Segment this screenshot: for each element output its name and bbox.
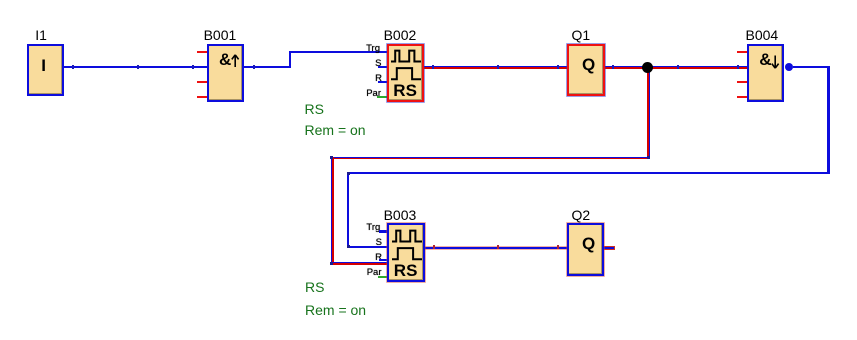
B003 pin stubs bbox=[379, 230, 388, 232]
B003 pin labels Trg S R Par bbox=[366, 223, 380, 233]
wire vertical down at x=332 (active) bbox=[331, 157, 332, 265]
node comment RS Rem=on (B002) bbox=[305, 102, 324, 116]
wire horizontal to left (active) bbox=[332, 157, 651, 158]
node junction dot (black) bbox=[642, 62, 653, 73]
I1 letter I bbox=[41, 57, 46, 74]
label Q1 bbox=[572, 28, 591, 42]
node B004 output dot (blue) bbox=[785, 63, 793, 71]
B001 unused input pin stubs bbox=[197, 51, 207, 54]
wire B003 to Q2 bbox=[425, 246, 567, 250]
label B002 bbox=[384, 28, 417, 42]
B002 pin stubs bbox=[378, 66, 387, 68]
B003 box bbox=[387, 223, 425, 282]
B004 falling-edge arrow bbox=[769, 55, 782, 69]
B003 pulse waveform icon bbox=[390, 227, 424, 262]
B003 RS text bbox=[394, 262, 418, 279]
I1 box bbox=[27, 44, 65, 97]
node comment RS Rem=on (B003) bbox=[305, 280, 324, 294]
label Q2 bbox=[572, 208, 591, 222]
label I1 bbox=[35, 28, 47, 42]
wire B001 to B002 bbox=[244, 66, 291, 68]
wire Q2 output stub bbox=[604, 246, 615, 247]
label B003 bbox=[384, 208, 417, 222]
B002 box bbox=[387, 44, 425, 103]
Q2 box bbox=[567, 223, 604, 276]
wire I1 to B001 bbox=[64, 66, 207, 68]
Q1 letter Q bbox=[582, 56, 595, 73]
label B001 bbox=[204, 28, 237, 42]
B004 box bbox=[747, 44, 784, 103]
node corner dots bbox=[330, 156, 333, 159]
B004 unused input pin stubs bbox=[737, 51, 747, 54]
B004 symbol ampersand bbox=[759, 51, 771, 68]
B002 RS text bbox=[393, 82, 417, 99]
wire into B003 R input (active) bbox=[332, 262, 387, 263]
wire Q1 to B004 (active) bbox=[605, 66, 748, 67]
wire junction down from Q1 node (active vertical) bbox=[649, 67, 650, 158]
B001 box bbox=[207, 44, 245, 103]
label B004 bbox=[746, 28, 779, 42]
wire B004 output loop to B003 S input (blue) bbox=[793, 66, 830, 68]
wire B002 to Q1 (active) bbox=[424, 66, 567, 67]
Q2 letter Q bbox=[582, 235, 595, 252]
B001 rising-edge arrow bbox=[229, 54, 242, 68]
Q1 box bbox=[567, 44, 605, 97]
B002 pulse waveform icon bbox=[389, 47, 423, 82]
B001 symbol ampersand bbox=[219, 51, 231, 68]
B002 pin labels Trg S R Par bbox=[366, 44, 380, 54]
